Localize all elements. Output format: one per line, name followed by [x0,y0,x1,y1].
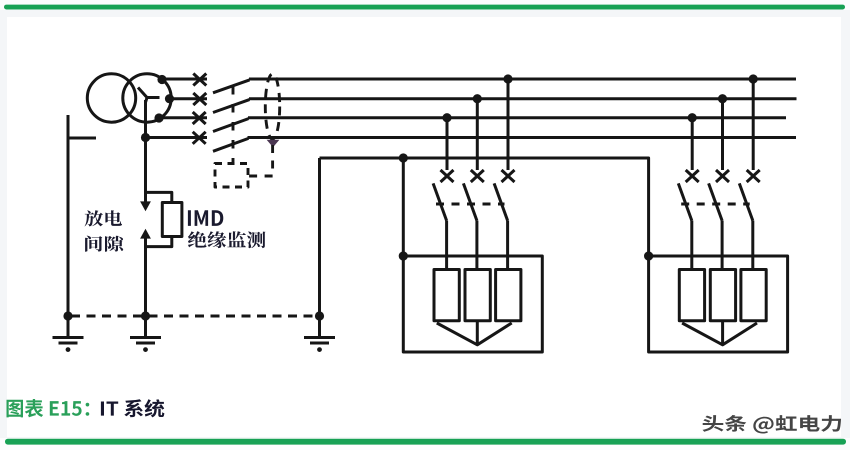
wire: earth riser to PE [318,158,321,316]
wire: neutral earthing conductor [144,100,147,202]
IMD branch wires [146,192,172,246]
node: PE tap for enclosure 1 [399,153,408,162]
IMD box [162,203,182,237]
node: PE at enclosure B [644,251,653,260]
node: tap A.2 [473,94,482,103]
wire: A pole 3 to load [506,221,509,270]
toroid CT (dashed) [265,74,279,139]
breaker blade L3 [213,119,249,132]
wire: feeder B pole 3 drop [752,79,755,170]
isolator contact X on L1 [193,74,206,86]
wire: earth lead [67,316,70,338]
wire: MV earth conductor [67,115,70,316]
earth electrode stub [68,137,96,140]
isolator contact X on L2 [193,93,206,105]
wire: B pole 3 to load [751,221,754,270]
wire: B pole 2 to load [721,221,724,270]
wire: phase L1 busbar [249,78,796,81]
node: L3 terminal on T1 [154,113,163,122]
wire: earth lead [318,316,321,338]
breaker blade A.3 [494,183,508,220]
node: tap B.2 [718,94,727,103]
wire: A pole 1 to load [445,221,448,270]
load enclosure B [649,256,788,352]
wire: feeder B pole 1 drop [691,118,694,170]
wire: B pole 1 to load [690,221,693,270]
residual current relay (dashed box) [215,164,248,188]
transformer T1 secondary winding [123,74,171,122]
node: earth electrode 2 [141,311,150,320]
load unit A.1 [434,270,459,321]
isolator contact X B.1 [686,170,699,182]
CT output arrow [267,140,280,147]
breaker blade L1 [213,80,250,93]
breaker blade L2 [213,100,250,113]
outgoing feeder arrow A [437,321,512,345]
wire: feeder B pole 2 drop [721,99,724,170]
wire: phase L3 busbar [248,116,786,119]
wire: PE drop to enclosure 1 [402,158,405,256]
isolator contact X on N [193,132,206,144]
breaker blade A.2 [463,183,477,220]
ground electrode symbol [53,338,84,344]
isolator contact X B.3 [747,170,760,182]
trip linkage (dashed) incoming breaker [232,86,235,164]
wire: A pole 2 to load [475,221,478,270]
ground electrode symbol [304,338,335,344]
node: earth electrode 3 [315,311,324,320]
trip linkage (dashed) A [436,203,505,206]
top banner bar [4,5,845,10]
transformer T1 primary winding [87,74,135,122]
discharge gap upper electrode (arrow down) [140,201,151,211]
trip linkage (dashed) B [681,203,750,206]
caption: IT 系统 [101,399,164,417]
T1 wye point [138,88,160,103]
isolator contact X A.1 [441,170,454,182]
node: L2 terminal on T1 [165,94,174,103]
caption: 图表 E15： (green) [7,399,90,417]
load unit B.2 [710,270,735,321]
node: tap B.3 [749,74,758,83]
isolator contact X B.2 [716,170,729,182]
node: PE at enclosure A [399,251,408,260]
node: tap A.3 [503,74,512,83]
outgoing feeder arrow B [682,321,757,345]
load enclosure A [403,256,542,352]
bottom banner bar [5,439,846,445]
node: tap B.1 [688,113,697,122]
discharge gap lower electrode (arrow up) [140,229,151,239]
CT to relay link (dashed) [249,145,273,176]
load unit A.3 [496,270,521,321]
node: neutral junction [141,133,150,142]
wire: phase L2 from T1 [168,97,207,100]
breaker blade B.2 [709,183,723,220]
node: earth electrode 1 [63,311,72,320]
watermark: 头条 @虹电力 [703,415,842,434]
wire: neutral busbar [248,136,797,139]
load unit B.1 [679,270,704,321]
label: discharge gap 间隙 [85,236,123,252]
wire: phase L3 from T1 [158,116,207,119]
label: 绝缘监测 insulation monitoring [188,231,266,248]
wire: earth lead [144,316,147,338]
wire: PE conductor to enclosures [320,158,649,256]
ground electrode symbol [130,338,161,344]
isolator contact X A.2 [471,170,484,182]
label: IMD [188,210,223,226]
wire: phase L1 from T1 [161,78,207,81]
load unit B.3 [741,270,766,321]
wire: feeder A pole 1 drop [446,118,449,170]
isolator contact X on L3 [193,112,206,124]
node: tap A.1 [442,113,451,122]
label: discharge gap 放电 [85,210,122,226]
wire: feeder A pole 2 drop [476,99,479,170]
isolator contact X A.3 [502,170,515,182]
load unit A.2 [465,270,490,321]
wire: neutral N from T1 [146,136,208,139]
wire: feeder A pole 3 drop [507,79,510,170]
breaker blade N [213,138,249,151]
breaker blade B.1 [678,183,692,220]
wire: below discharge gap [144,238,147,316]
breaker blade B.3 [739,183,753,220]
earth link (dashed) [68,315,320,318]
wire: phase L2 busbar [249,97,797,100]
breaker blade A.1 [433,183,447,220]
node: L1 terminal on T1 [157,75,166,84]
